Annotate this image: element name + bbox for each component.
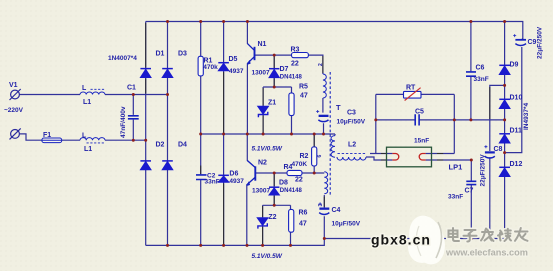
svg-text:C6: C6	[476, 65, 485, 72]
svg-text:C3: C3	[347, 110, 356, 117]
svg-text:R2: R2	[300, 153, 309, 160]
svg-text:V1: V1	[9, 82, 18, 89]
svg-text:10μF/50V: 10μF/50V	[332, 221, 361, 228]
diode D1	[140, 69, 151, 78]
capacitor C6	[466, 72, 476, 76]
svg-text:22μF/250V: 22μF/250V	[537, 26, 544, 59]
wire lamp top-right pin	[426, 153, 455, 155]
wire Z1/R5 node	[263, 86, 291, 88]
svg-text:DN4148: DN4148	[280, 75, 303, 81]
capacitor C7	[466, 181, 476, 184]
svg-text:D6: D6	[229, 171, 238, 178]
svg-text:D1: D1	[156, 51, 165, 58]
diode D4	[162, 161, 173, 170]
inductor L2	[337, 153, 366, 160]
wire half-bridge mid node	[201, 133, 335, 135]
svg-text:D2: D2	[156, 142, 165, 149]
svg-text:C7: C7	[465, 188, 474, 195]
wire D8 stub	[273, 173, 275, 205]
svg-text:4937: 4937	[229, 178, 244, 185]
wire N2 collector/emitter column	[247, 134, 256, 245]
wire N1 base row	[255, 55, 323, 74]
svg-text:R3: R3	[291, 47, 300, 54]
svg-text:33nF: 33nF	[448, 194, 463, 201]
svg-text:47: 47	[300, 93, 308, 100]
svg-text:22: 22	[295, 177, 303, 184]
zener Z1	[258, 106, 269, 117]
svg-text:15nF: 15nF	[414, 138, 429, 145]
svg-text:6: 6	[317, 155, 323, 158]
capacitor C4 polarized	[319, 202, 330, 214]
svg-text:22: 22	[291, 61, 299, 68]
svg-text:D5: D5	[229, 56, 238, 63]
transformer T core	[329, 72, 331, 196]
svg-text:470K: 470K	[292, 161, 308, 168]
capacitor C1	[128, 116, 139, 119]
wire C8 branch from D9/D10 junction	[490, 85, 505, 238]
svg-text:N1: N1	[258, 41, 267, 48]
inductor L1 bottom winding	[80, 138, 105, 143]
svg-text:22μF/250V: 22μF/250V	[480, 154, 487, 187]
wire C1 column	[132, 95, 134, 141]
capacitor C3 polarized	[316, 110, 328, 122]
AC source terminal V1 top	[10, 89, 21, 100]
svg-text:C5: C5	[415, 109, 424, 116]
svg-text:gbx8.cn: gbx8.cn	[371, 232, 431, 248]
svg-text:D8: D8	[279, 180, 288, 187]
svg-text:13007: 13007	[252, 70, 270, 77]
wire AC input bottom	[20, 134, 146, 140]
resistor R5	[289, 93, 294, 116]
svg-text:D4: D4	[178, 142, 187, 149]
wire T winding A to C3	[322, 98, 325, 134]
wire C5 row	[376, 119, 505, 121]
diode D10	[499, 99, 510, 108]
watermark logo white leaf	[403, 211, 451, 269]
svg-text:L1: L1	[84, 146, 92, 153]
svg-text:C9: C9	[528, 39, 537, 46]
svg-text:D12: D12	[510, 161, 523, 168]
lamp right filament	[419, 154, 425, 161]
inductor L1 top winding	[80, 89, 105, 94]
diode D3	[162, 69, 173, 78]
svg-text:Z1: Z1	[268, 100, 276, 107]
wire C6 column	[470, 22, 472, 120]
transformer T winding B	[331, 136, 335, 158]
diode D9	[499, 65, 510, 74]
svg-text:3: 3	[318, 204, 324, 207]
svg-text:N2: N2	[258, 160, 267, 167]
diode D2	[140, 161, 151, 170]
svg-text:LP1: LP1	[449, 163, 463, 172]
wire C9 column and return to D11/D12	[505, 39, 523, 153]
wire R5 column	[291, 87, 293, 134]
wire T winding C to C4	[323, 195, 325, 239]
wire T winding B to L2	[335, 134, 392, 160]
wire bridge right column D3/D4	[167, 22, 169, 246]
wire RT/C5 loop left vertical	[375, 94, 377, 153]
wire R2 column	[313, 134, 315, 173]
svg-text:13007: 13007	[252, 188, 270, 195]
svg-text:Z2: Z2	[268, 214, 276, 221]
wire N2 base row	[255, 172, 324, 174]
svg-text:C8: C8	[494, 146, 503, 153]
svg-text:T: T	[336, 103, 341, 112]
capacitor C2	[196, 175, 207, 180]
svg-text:33nF: 33nF	[205, 179, 220, 186]
svg-text:5.1V/0.5W: 5.1V/0.5W	[252, 146, 283, 153]
svg-text:C1: C1	[127, 85, 136, 92]
wire Z1 column	[262, 87, 264, 134]
resistor R2	[312, 147, 317, 166]
svg-text:IN4937*4: IN4937*4	[523, 103, 530, 130]
svg-text:D11: D11	[510, 128, 523, 135]
svg-text:L: L	[82, 85, 87, 92]
wire Z2/R6 node	[263, 204, 291, 206]
diode D11	[499, 134, 510, 143]
lamp left filament	[392, 154, 398, 161]
svg-text:L2: L2	[348, 142, 356, 149]
lamp LP1 tube	[387, 147, 432, 167]
diode D7	[269, 69, 279, 78]
svg-text:R5: R5	[299, 84, 308, 91]
AC source terminal V1 bottom	[10, 128, 21, 139]
resistor R3	[292, 53, 309, 58]
wire C7 column	[470, 160, 472, 239]
diode D6	[218, 175, 229, 182]
zener Z2	[257, 218, 268, 229]
fuse F1	[42, 138, 62, 143]
svg-text:5.1V/0.5W: 5.1V/0.5W	[252, 253, 283, 260]
transistor N1	[247, 44, 254, 65]
svg-text:2: 2	[318, 63, 324, 66]
wire Z2 column	[262, 205, 264, 245]
wire D9-D12 chain column	[504, 22, 506, 239]
svg-text:4937: 4937	[229, 68, 244, 75]
wire D7 stub	[273, 55, 275, 87]
transformer T winding C	[324, 172, 327, 194]
wire RT row	[376, 93, 455, 95]
transistor N2	[247, 161, 256, 186]
wire lamp bottom-right pin	[426, 159, 472, 161]
svg-text:L1: L1	[83, 99, 91, 106]
svg-text:1N4007*4: 1N4007*4	[108, 55, 137, 62]
wire R1/C2 column	[200, 22, 202, 246]
svg-text:D9: D9	[510, 62, 519, 69]
svg-text:RT: RT	[406, 85, 416, 92]
wire bottom rail left	[146, 239, 505, 246]
wire top DC rail	[146, 22, 523, 40]
wire lamp top-left pin	[370, 153, 392, 155]
transformer T winding A	[323, 74, 326, 98]
svg-text:10μF/50V: 10μF/50V	[337, 119, 366, 126]
svg-text:D10: D10	[510, 95, 523, 102]
svg-text:47: 47	[299, 221, 307, 228]
svg-text:~220V: ~220V	[4, 107, 24, 114]
svg-text:www.elecfans.com: www.elecfans.com	[445, 248, 528, 258]
svg-text:33nF: 33nF	[474, 76, 489, 83]
resistor R6	[289, 209, 294, 232]
svg-text:DN4148: DN4148	[280, 188, 303, 194]
diode D8	[269, 187, 279, 195]
wire RT/C5 loop right vertical	[453, 94, 455, 153]
thermistor RT	[404, 88, 422, 101]
watermark chinese characters	[449, 228, 528, 242]
capacitor C8 polarized	[484, 145, 494, 158]
diode D5	[218, 63, 229, 71]
diode D12	[499, 167, 510, 176]
svg-text:L: L	[82, 133, 87, 140]
wire N1 collector/emitter column	[247, 22, 254, 135]
svg-text:D7: D7	[280, 66, 289, 73]
capacitor C5	[415, 114, 419, 125]
svg-text:F1: F1	[43, 132, 51, 139]
svg-text:47nF/400v: 47nF/400v	[120, 106, 127, 138]
wire R6 column	[290, 205, 292, 245]
svg-text:C4: C4	[332, 207, 341, 214]
wire D5/D6 column	[223, 22, 225, 246]
svg-text:R6: R6	[299, 210, 308, 217]
resistor R1	[198, 56, 203, 76]
capacitor C9 polarized	[513, 34, 526, 45]
svg-text:D3: D3	[178, 51, 187, 58]
wire AC input top	[19, 94, 167, 96]
svg-text:470k: 470k	[203, 64, 218, 71]
resistor R4	[287, 170, 302, 175]
wire bridge left column D1/D2	[145, 22, 147, 246]
wire dark segments	[146, 23, 490, 244]
